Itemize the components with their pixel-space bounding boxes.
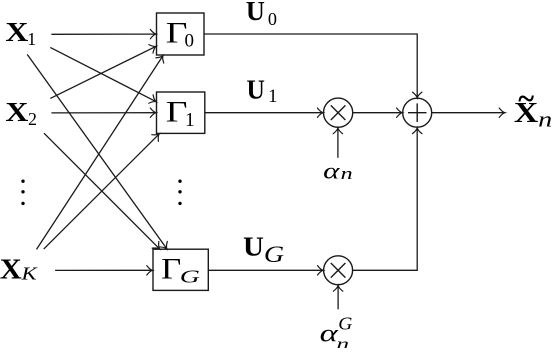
wire alpha_n^G to multiplier G — [337, 285, 339, 309]
wire X1 to Gamma_G — [27, 54, 167, 249]
block Gamma_1 — [157, 92, 205, 133]
svg-text:U: U — [246, 0, 265, 26]
wire X2 to Gamma_0 — [50, 46, 156, 98]
svg-text:G: G — [264, 242, 284, 267]
wire alpha_n to multiplier — [337, 128, 339, 158]
block Gamma_0 — [157, 13, 205, 55]
svg-text:G: G — [338, 314, 352, 334]
svg-text:1: 1 — [185, 110, 195, 131]
svg-text:1: 1 — [27, 29, 36, 49]
svg-text:G: G — [180, 266, 200, 286]
wire adder to output — [432, 112, 505, 114]
svg-text:X: X — [0, 255, 22, 286]
node X1 input label — [5, 16, 36, 49]
wire X2 to Gamma_1 — [51, 112, 156, 114]
wire UG from Gamma_G to multiplier G — [208, 269, 323, 271]
wire U0 from Gamma_0 to adder — [204, 34, 417, 98]
wire XK to Gamma_G — [55, 269, 153, 271]
svg-text:U: U — [243, 231, 264, 262]
wire XK to Gamma_1 — [44, 134, 160, 249]
vdots between Gamma_1 and Gamma_G — [178, 180, 181, 206]
svg-text:0: 0 — [185, 31, 195, 52]
svg-text:2: 2 — [28, 109, 37, 129]
svg-text:n: n — [341, 164, 353, 183]
svg-text:α: α — [323, 158, 340, 184]
svg-text:U: U — [247, 74, 265, 104]
wire X2 to Gamma_G — [44, 133, 160, 249]
svg-text:K: K — [20, 263, 38, 283]
block Gamma_G — [153, 249, 208, 290]
vdots between X2 and XK — [21, 180, 24, 206]
svg-text:X: X — [5, 96, 28, 127]
wire XK to Gamma_0 — [37, 56, 164, 250]
wire multiplier G to adder — [353, 128, 417, 270]
label U0 — [246, 0, 277, 29]
label alpha_n^G — [320, 314, 353, 353]
label output X~n — [514, 81, 552, 132]
svg-text:n: n — [538, 107, 552, 132]
label alpha_n — [323, 158, 353, 184]
label UG — [243, 231, 284, 267]
svg-text:Γ: Γ — [161, 254, 181, 286]
wire multiplier to adder — [353, 112, 403, 114]
multiplier (circle-times) upper — [324, 98, 353, 127]
adder (circle-plus) — [403, 98, 432, 127]
svg-text:~: ~ — [518, 81, 534, 116]
svg-text:0: 0 — [268, 9, 277, 29]
label U1 — [247, 74, 278, 107]
node XK input label — [0, 255, 38, 286]
wire U1 from Gamma_1 to multiplier — [205, 112, 323, 114]
wire X1 to Gamma_0 — [51, 33, 156, 35]
wire X1 to Gamma_1 — [50, 47, 156, 101]
node X2 input label — [5, 96, 37, 129]
svg-text:1: 1 — [268, 86, 277, 107]
multiplier (circle-times) lower — [324, 256, 353, 285]
svg-text:X: X — [5, 16, 28, 47]
svg-text:n: n — [337, 336, 350, 348]
